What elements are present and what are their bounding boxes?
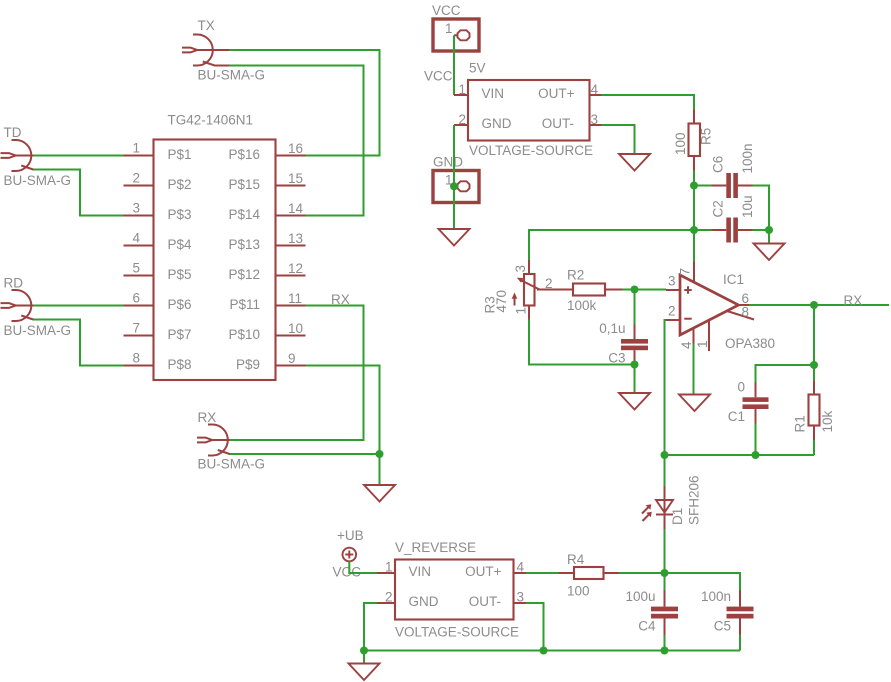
pin 1 VIN <box>454 82 468 97</box>
svg-text:P$15: P$15 <box>228 177 260 192</box>
svg-text:OPA380: OPA380 <box>725 336 775 351</box>
svg-text:8: 8 <box>132 351 140 366</box>
ground <box>754 244 785 261</box>
svg-text:10: 10 <box>288 321 303 336</box>
wire output to RX <box>749 304 889 306</box>
svg-text:R5: R5 <box>699 128 714 145</box>
svg-text:C3: C3 <box>608 351 625 366</box>
svg-text:4: 4 <box>517 560 525 575</box>
svg-text:100n: 100n <box>740 143 755 173</box>
svg-text:BU-SMA-G: BU-SMA-G <box>4 323 72 338</box>
supply +UB <box>337 528 364 561</box>
wire feedback node rail <box>665 454 815 456</box>
wire GND pin down to rail <box>364 603 377 651</box>
wire +UB to VIN <box>349 561 377 573</box>
pin 2 GND <box>454 112 468 127</box>
svg-text:9: 9 <box>288 351 296 366</box>
junction <box>690 182 698 190</box>
wire C6 right down <box>753 186 770 231</box>
svg-text:12: 12 <box>288 261 303 276</box>
pin 3 OUT- <box>514 590 527 605</box>
wire GND pin to ground <box>453 125 455 229</box>
connector RD BU-SMA-G <box>1 276 72 339</box>
wire node to C1 top <box>756 365 815 383</box>
svg-text:3: 3 <box>591 112 599 127</box>
voltage source U$2 V_REVERSE <box>395 540 519 640</box>
svg-text:100k: 100k <box>567 298 597 313</box>
svg-text:P$4: P$4 <box>168 237 193 252</box>
svg-text:C1: C1 <box>728 409 745 424</box>
pin 15 P$15 <box>228 171 305 192</box>
svg-text:3: 3 <box>517 590 525 605</box>
wire R2 to op-amp +in <box>623 289 667 291</box>
svg-text:1: 1 <box>385 560 393 575</box>
wire output node down to R1 <box>813 305 815 381</box>
connector TD BU-SMA-G <box>1 125 72 188</box>
wire pin 4 to ground <box>693 344 695 395</box>
wire OUT+ to R5 <box>602 95 695 110</box>
svg-text:3: 3 <box>668 274 676 289</box>
pin 8 NC <box>727 305 754 320</box>
svg-text:VIN: VIN <box>482 86 505 101</box>
svg-text:RX: RX <box>844 293 863 308</box>
wire node to C3 <box>634 290 636 325</box>
junction <box>631 286 639 294</box>
pin 12 P$12 <box>228 261 305 282</box>
svg-text:VCC: VCC <box>432 3 461 18</box>
ground <box>349 664 380 681</box>
svg-text:BU-SMA-G: BU-SMA-G <box>4 173 72 188</box>
wire node to R3 top <box>529 230 694 260</box>
pin 7 P$7 <box>124 321 192 343</box>
wire node to C4 <box>664 573 666 590</box>
svg-text:TG42-1406N1: TG42-1406N1 <box>168 113 254 128</box>
capacitor C6 100n <box>711 143 756 198</box>
capacitor C3 0,1u <box>599 321 648 366</box>
photodiode D1 SFH206 <box>642 475 702 529</box>
wire RX signal to pin 11 <box>230 306 364 441</box>
wire D1 to node <box>664 529 666 573</box>
svg-text:R1: R1 <box>793 415 808 432</box>
svg-text:RD: RD <box>4 276 24 291</box>
svg-text:15: 15 <box>288 171 303 186</box>
wire R1 bottom <box>813 440 815 455</box>
svg-text:IC1: IC1 <box>723 272 744 287</box>
resistor R5 100 <box>673 110 714 171</box>
pin 11 P$11 <box>229 291 305 312</box>
ground <box>439 229 470 246</box>
wire TD shield to pin 3 <box>34 170 124 216</box>
svg-text:VOLTAGE-SOURCE: VOLTAGE-SOURCE <box>395 625 519 640</box>
pin 4 P$4 <box>124 231 193 253</box>
svg-text:100: 100 <box>673 132 688 155</box>
supply VCC pin <box>432 3 479 51</box>
wire OUT+ to R4 <box>526 572 559 574</box>
wire node down to D1 <box>664 455 666 486</box>
svg-text:2: 2 <box>545 276 553 291</box>
wire pin 9 to ground <box>306 366 380 486</box>
svg-text:SFH206: SFH206 <box>687 475 702 525</box>
svg-text:P$11: P$11 <box>229 297 260 312</box>
svg-text:0: 0 <box>737 380 745 395</box>
connector TX BU-SMA-G <box>182 18 265 83</box>
op-amp IC1 OPA380 <box>680 272 775 351</box>
svg-text:C4: C4 <box>638 619 656 634</box>
svg-text:RX: RX <box>331 292 350 307</box>
junction <box>450 182 458 190</box>
svg-text:1: 1 <box>514 307 529 315</box>
wire C5 bottom <box>739 635 741 651</box>
svg-text:1: 1 <box>445 21 453 36</box>
svg-text:1: 1 <box>458 82 466 97</box>
svg-text:P$10: P$10 <box>228 327 260 342</box>
svg-text:TX: TX <box>198 18 215 33</box>
pin 2 -in <box>666 304 680 321</box>
wire node to C6 <box>694 185 712 187</box>
svg-text:R4: R4 <box>567 552 585 567</box>
svg-text:0,1u: 0,1u <box>599 321 625 336</box>
svg-text:P$7: P$7 <box>168 327 192 342</box>
svg-text:2: 2 <box>385 590 393 605</box>
junction <box>661 451 669 459</box>
svg-text:10u: 10u <box>740 195 755 218</box>
junction <box>631 361 639 369</box>
wire node to C5 <box>665 573 741 590</box>
wire C3 to ground node <box>634 361 636 394</box>
junction <box>690 226 698 234</box>
svg-text:P$8: P$8 <box>168 357 192 372</box>
svg-text:100: 100 <box>567 584 590 599</box>
svg-text:6: 6 <box>132 291 140 306</box>
junction <box>360 647 368 655</box>
svg-text:OUT-: OUT- <box>469 594 501 609</box>
svg-text:BU-SMA-G: BU-SMA-G <box>198 457 266 472</box>
capacitor C5 100n <box>701 589 754 635</box>
junction <box>810 361 818 369</box>
pin 16 P$16 <box>228 141 305 162</box>
wire C4 bottom <box>664 635 666 651</box>
pin 7 V+ <box>678 262 695 283</box>
svg-text:3: 3 <box>132 201 140 216</box>
junction <box>661 569 669 577</box>
wire op-amp -in feedback down <box>665 320 667 455</box>
ground <box>679 395 710 412</box>
svg-text:2: 2 <box>458 112 466 127</box>
svg-text:5V: 5V <box>469 61 486 76</box>
svg-text:V_REVERSE: V_REVERSE <box>395 540 476 555</box>
pin 5 P$5 <box>124 261 192 283</box>
pin 4 V- <box>679 328 694 349</box>
svg-text:2: 2 <box>132 171 140 186</box>
svg-text:VIN: VIN <box>409 564 432 579</box>
svg-text:7: 7 <box>132 321 140 336</box>
pin 8 P$8 <box>124 351 192 373</box>
svg-text:100n: 100n <box>701 589 731 604</box>
svg-text:4: 4 <box>679 341 694 349</box>
svg-text:BU-SMA-G: BU-SMA-G <box>198 68 266 83</box>
svg-text:+UB: +UB <box>337 528 364 543</box>
svg-text:P$1: P$1 <box>168 147 192 162</box>
pin 13 P$13 <box>228 231 305 252</box>
svg-text:GND: GND <box>433 155 463 170</box>
resistor R1 10k <box>793 381 836 441</box>
svg-text:7: 7 <box>678 268 693 276</box>
svg-text:2: 2 <box>668 304 676 319</box>
svg-text:4: 4 <box>132 231 140 246</box>
svg-text:R2: R2 <box>567 268 584 283</box>
capacitor C2 10u <box>711 195 756 242</box>
pin 3 OUT- <box>590 112 602 127</box>
wire ground rail <box>364 650 740 652</box>
capacitor C4 100u <box>625 589 678 635</box>
pin 14 P$14 <box>228 201 305 222</box>
svg-text:11: 11 <box>288 291 302 306</box>
wire RX shield to ground <box>230 453 380 455</box>
wire R5 node down to op-amp V+ <box>693 186 695 262</box>
svg-text:8: 8 <box>742 305 750 320</box>
junction <box>752 451 760 459</box>
wire node to C2 <box>694 229 712 231</box>
svg-text:4: 4 <box>591 82 599 97</box>
svg-text:3: 3 <box>513 265 528 273</box>
pin 10 P$10 <box>228 321 305 342</box>
pin 4 OUT+ <box>590 82 602 97</box>
pin 1 NC <box>695 321 710 352</box>
capacitor C1 0 <box>728 380 769 425</box>
svg-text:5: 5 <box>132 261 140 276</box>
supply GND pin <box>433 155 479 203</box>
wire rail to ground <box>363 651 365 664</box>
svg-text:P$16: P$16 <box>228 147 260 162</box>
junction <box>376 450 384 458</box>
IC TG42-1406N1 box <box>154 113 276 381</box>
wire C1 bottom <box>755 424 757 456</box>
trimmer R3 470 <box>483 260 574 320</box>
wire VCC to VIN <box>453 35 455 95</box>
svg-text:16: 16 <box>288 141 303 156</box>
wire TX signal to pin 16 <box>229 50 380 156</box>
pin 2 GND <box>377 590 395 605</box>
junction <box>765 226 773 234</box>
svg-text:P$2: P$2 <box>168 177 192 192</box>
svg-text:D1: D1 <box>670 508 685 525</box>
svg-text:TD: TD <box>4 125 22 140</box>
svg-text:1: 1 <box>695 340 710 348</box>
svg-text:470: 470 <box>494 290 509 313</box>
pin 3 P$3 <box>124 201 192 223</box>
svg-text:C6: C6 <box>711 156 726 173</box>
svg-text:P$6: P$6 <box>168 297 192 312</box>
svg-text:P$9: P$9 <box>236 357 260 372</box>
svg-text:VCC: VCC <box>424 69 453 84</box>
wire RD shield to pin 8 <box>34 320 124 366</box>
pin 6 output <box>739 291 750 306</box>
svg-text:GND: GND <box>482 116 512 131</box>
svg-text:C5: C5 <box>714 619 731 634</box>
wire R3 bottom down <box>529 320 635 365</box>
svg-text:P$14: P$14 <box>228 207 260 222</box>
svg-text:P$12: P$12 <box>228 267 260 282</box>
voltage source U$1 5V <box>468 61 593 159</box>
resistor R2 100k <box>567 268 623 314</box>
wire TX shield to pin 14 <box>229 66 364 216</box>
resistor R4 100 <box>559 552 620 599</box>
wire R4 to node <box>619 572 665 574</box>
wire RD signal to pin 6 <box>34 305 124 307</box>
pin 1 P$1 <box>124 141 192 163</box>
svg-text:OUT-: OUT- <box>542 116 574 131</box>
pin 4 OUT+ <box>514 560 527 575</box>
wire OUT- to ground <box>602 125 635 154</box>
wire to ground <box>768 230 770 244</box>
svg-text:P$13: P$13 <box>228 237 260 252</box>
junction <box>661 647 669 655</box>
svg-text:13: 13 <box>288 231 303 246</box>
pin 6 P$6 <box>124 291 192 313</box>
wire OUT- down to rail <box>526 603 544 651</box>
junction <box>810 301 818 309</box>
svg-text:OUT+: OUT+ <box>538 86 574 101</box>
pin 2 P$2 <box>124 171 192 193</box>
pin 9 P$9 <box>236 351 306 372</box>
wire C2 right <box>753 229 770 231</box>
pin 3 +in <box>666 274 680 291</box>
connector RX BU-SMA-G <box>197 410 265 472</box>
svg-text:RX: RX <box>198 410 217 425</box>
svg-text:1: 1 <box>132 141 140 156</box>
svg-text:OUT+: OUT+ <box>465 564 501 579</box>
svg-text:100u: 100u <box>625 589 655 604</box>
pin 1 VIN <box>377 560 395 575</box>
ground <box>619 154 650 171</box>
svg-text:14: 14 <box>288 201 304 216</box>
svg-text:C2: C2 <box>711 200 726 217</box>
wire TD signal to pin 1 <box>34 155 124 157</box>
junction <box>540 647 548 655</box>
svg-text:VOLTAGE-SOURCE: VOLTAGE-SOURCE <box>469 143 593 158</box>
svg-text:10k: 10k <box>820 410 835 432</box>
svg-text:P$5: P$5 <box>168 267 192 282</box>
ground <box>619 393 650 410</box>
svg-text:GND: GND <box>409 594 439 609</box>
ground <box>364 485 395 502</box>
svg-text:P$3: P$3 <box>168 207 192 222</box>
wire R5 to node <box>693 171 695 186</box>
